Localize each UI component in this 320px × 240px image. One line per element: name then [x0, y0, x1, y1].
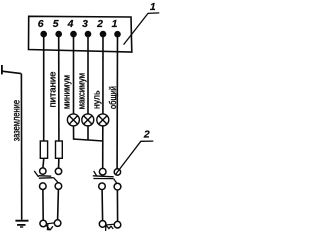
svg-text:2: 2: [96, 19, 103, 30]
svg-text:1: 1: [150, 2, 156, 13]
svg-text:заземление: заземление: [11, 100, 22, 142]
svg-text:минимум: минимум: [61, 75, 72, 109]
svg-text:3: 3: [82, 19, 88, 30]
svg-text:нуль: нуль: [91, 90, 102, 109]
svg-text:4: 4: [67, 19, 74, 30]
svg-text:5: 5: [53, 19, 59, 30]
svg-text:питание: питание: [47, 72, 58, 108]
svg-text:2: 2: [143, 129, 150, 140]
svg-text:максимум: максимум: [75, 73, 86, 109]
svg-text:общий: общий: [107, 86, 118, 109]
svg-text:1: 1: [112, 19, 118, 30]
svg-text:6: 6: [38, 19, 44, 30]
